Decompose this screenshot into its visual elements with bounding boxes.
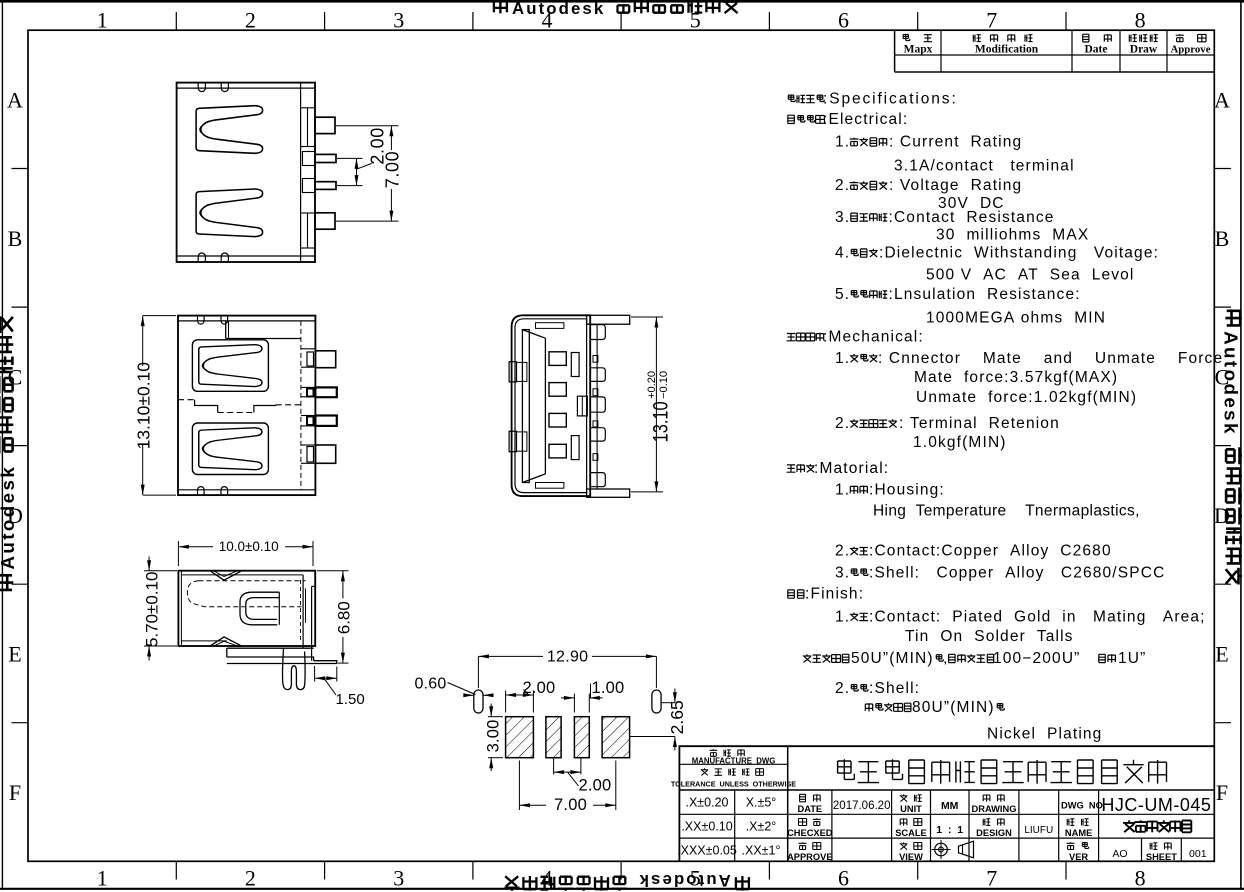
svg-text:13.10±0.10: 13.10±0.10 — [133, 362, 153, 450]
svg-text:3: 3 — [393, 8, 404, 33]
revision table header Date — [1083, 34, 1112, 42]
cell UNIT — [900, 794, 922, 801]
view2 spring upper — [199, 345, 262, 387]
view2 hidden line vertical dashed — [300, 321, 302, 490]
view2 wall ticks — [301, 348, 316, 350]
view5 dim 1.00 arrows outside — [561, 697, 574, 699]
view2 top plate — [225, 321, 227, 339]
svg-text:7.00: 7.00 — [383, 151, 403, 188]
view1 bottom notch 1 — [198, 253, 205, 262]
title block horizontal lines — [679, 763, 787, 765]
svg-text:: Cnnector Mate and U: : Cnnector Mate and Unmate Force — [878, 350, 1223, 367]
view5 dim 7.00 ext lines — [518, 761, 520, 811]
outer border right line — [1240, 1, 1242, 890]
svg-text::Electrical:: :Electrical: — [823, 111, 908, 128]
view2 bottom inner line — [178, 489, 315, 491]
svg-text:2.: 2. — [835, 177, 850, 194]
svg-text::Dielectnic Withstanding Vo: :Dielectnic Withstanding Voitage: — [879, 245, 1159, 262]
svg-text:8: 8 — [1135, 8, 1146, 33]
view4 fork pin — [282, 648, 305, 689]
view4 foot plate — [227, 648, 314, 661]
svg-text:NAME: NAME — [1065, 828, 1092, 838]
cell SHEET — [1150, 842, 1171, 850]
bottom ruler ticks — [175, 861, 177, 879]
svg-text::Shell:: :Shell: — [869, 680, 920, 697]
svg-text:6: 6 — [838, 866, 849, 891]
view2 terminal 1 — [315, 351, 335, 368]
view3 outer shell — [512, 315, 591, 496]
svg-text:A: A — [7, 87, 23, 112]
view5 dim 2.65 line arrows outside — [674, 689, 676, 703]
svg-text:500 V AC AT Sea Levol: 500 V AC AT Sea Levol — [926, 267, 1135, 284]
svg-text:APPROVE: APPROVE — [787, 852, 832, 862]
view5 dim 2.00 top line arrows — [506, 694, 534, 696]
view2 mid parting line solid steps — [195, 400, 218, 413]
svg-text:A: A — [1214, 87, 1230, 112]
view3 right column rect top — [571, 353, 579, 377]
view1 dim 7.00 line and arrows — [390, 126, 392, 150]
svg-text:DESIGN: DESIGN — [976, 828, 1012, 838]
view3 right small squares — [593, 356, 598, 363]
svg-text:MM: MM — [941, 800, 959, 812]
view5 dim 7.00 line arrows — [519, 804, 546, 806]
svg-text:1.: 1. — [835, 481, 850, 498]
view1 top inner line — [177, 87, 315, 89]
view3 center clip — [577, 396, 587, 416]
svg-text::Contact: Piated Gold in: :Contact: Piated Gold in Mating Area; — [869, 608, 1206, 625]
svg-text:Autodesk: Autodesk — [638, 871, 731, 890]
view3 right column rect bottom — [571, 436, 579, 460]
third angle projection symbol cone — [959, 841, 974, 858]
view3 dim 13.10 ext lines — [631, 316, 663, 318]
title block outer — [679, 746, 1214, 861]
title company name — [838, 759, 1167, 783]
view4 dim 6.80 line arrows — [342, 571, 344, 599]
revision table header Approve — [1176, 34, 1206, 42]
top ruler ticks — [175, 12, 177, 30]
outer border left line — [1, 1, 3, 890]
watermark right (rotated 90) — [1221, 311, 1243, 585]
svg-text:VIEW: VIEW — [899, 852, 923, 862]
svg-text:.XXX±0.05: .XXX±0.05 — [677, 844, 737, 858]
view1 terminal 4 — [315, 213, 335, 229]
view3 bottom wing tab — [587, 489, 630, 497]
svg-text:Autodesk: Autodesk — [512, 0, 605, 18]
svg-text:8: 8 — [1135, 866, 1146, 891]
cell NAME — [1067, 819, 1088, 826]
svg-text:100−200U”: 100−200U” — [993, 650, 1080, 667]
view2 spring lower — [199, 428, 262, 470]
svg-text:Hing Temperature Tnermapla: Hing Temperature Tnermaplastics, — [873, 502, 1140, 519]
spec line Specifications — [788, 95, 824, 103]
view4 solder tail — [227, 661, 337, 664]
cell CHECXED — [799, 818, 821, 825]
view3 dim 13.10 tolerance text — [646, 371, 672, 443]
view4 hidden tongue dashed outline — [199, 580, 306, 582]
spec line plating 80U — [865, 703, 911, 712]
view5 right slot — [652, 690, 661, 713]
spec line Finish — [788, 590, 804, 598]
svg-text:Mate force:3.57kgf(MAX): Mate force:3.57kgf(MAX) — [914, 369, 1118, 386]
svg-text:MANUFACTURE DWG: MANUFACTURE DWG — [692, 757, 776, 766]
view1 terminal leader lines — [336, 125, 399, 127]
svg-text:001: 001 — [1189, 848, 1207, 860]
svg-text:2.00: 2.00 — [523, 679, 556, 697]
svg-text:+0.20: +0.20 — [646, 371, 658, 399]
svg-text:Unmate force:1.02kgf(MIN): Unmate force:1.02kgf(MIN) — [916, 389, 1137, 406]
svg-text:LIUFU: LIUFU — [1024, 825, 1053, 836]
view1 terminal 2 — [315, 154, 336, 162]
title block vertical lines — [787, 746, 789, 861]
svg-text:.XX±0.10: .XX±0.10 — [681, 820, 732, 834]
svg-text:10.0±0.10: 10.0±0.10 — [219, 539, 279, 554]
right ruler ticks — [1214, 168, 1231, 170]
cell DRAWING — [983, 794, 1004, 802]
view4 spring right closure — [278, 592, 280, 625]
view1 body outline — [177, 83, 315, 262]
view4 dim 10.0 line arrows — [178, 546, 213, 548]
watermark bottom (rotated 180) — [505, 871, 749, 891]
svg-text:.X±0.20: .X±0.20 — [686, 796, 729, 810]
view4 dim 5.70 line arrows outside — [148, 557, 150, 571]
view4 top clip zigzag — [211, 571, 241, 580]
svg-text:Mapx: Mapx — [904, 44, 933, 56]
svg-text:4.: 4. — [835, 245, 850, 262]
view4 contact spring hook — [240, 592, 279, 625]
svg-text:1: 1 — [97, 8, 108, 33]
view2 top notch 1 — [198, 316, 205, 325]
svg-text:6: 6 — [838, 8, 849, 33]
svg-text:AO: AO — [1112, 848, 1127, 860]
svg-text:3.1A/contact terminal: 3.1A/contact terminal — [894, 158, 1075, 175]
spec line Electrical — [788, 115, 825, 124]
svg-text:2.65: 2.65 — [667, 700, 687, 734]
svg-text:UNIT: UNIT — [900, 804, 922, 814]
svg-text:1.0kgf(MIN): 1.0kgf(MIN) — [913, 434, 1007, 451]
view5 dim 1.00 ext lines — [573, 694, 575, 713]
svg-text:DRAWING: DRAWING — [972, 804, 1017, 814]
view3 inner top rect — [536, 323, 564, 329]
view1 bottom inner line — [177, 255, 315, 257]
cell DATE — [800, 794, 821, 802]
view3 right bumps — [590, 325, 605, 340]
svg-text:: Current Rating: : Current Rating — [889, 134, 1022, 151]
svg-text::Shell: Copper Alloy C268: :Shell: Copper Alloy C2680/SPCC — [869, 564, 1165, 581]
svg-text:80U”(MIN): 80U”(MIN) — [912, 699, 995, 716]
view4 bottom inner line — [181, 640, 226, 642]
svg-text:Autodesk: Autodesk — [0, 465, 18, 570]
view1 right wall line — [300, 83, 302, 262]
svg-text:VER: VER — [1069, 852, 1088, 862]
outer border bottom line — [0, 888, 1244, 890]
view3 tongue side — [522, 330, 529, 483]
view4 dim 6.80 ext lines — [317, 570, 349, 572]
cell SCALE — [900, 818, 922, 826]
view4 dim 1.50 ext and arrows — [314, 666, 316, 682]
view5 dim 12.90 line arrows — [478, 655, 543, 657]
svg-text:1.50: 1.50 — [336, 691, 365, 708]
svg-text:CHECXED: CHECXED — [787, 828, 833, 838]
svg-text:.XX±1°: .XX±1° — [742, 844, 781, 858]
svg-text:13.10: 13.10 — [649, 401, 673, 442]
svg-text:1.00: 1.00 — [592, 679, 625, 697]
svg-text:2.: 2. — [835, 543, 850, 560]
svg-text:B: B — [1215, 226, 1230, 251]
svg-text:7: 7 — [986, 866, 997, 891]
svg-text:2.: 2. — [835, 415, 850, 432]
svg-text:7.00: 7.00 — [554, 796, 587, 814]
view1 bottom notch 2 — [221, 253, 228, 262]
svg-text:30 milliohms MAX: 30 milliohms MAX — [936, 227, 1089, 244]
svg-text:SHEET: SHEET — [1146, 852, 1177, 862]
view2 top inner line — [178, 320, 315, 322]
view2 mid parting line dashed segments — [178, 399, 195, 401]
svg-text:2.: 2. — [835, 680, 850, 697]
svg-text:E: E — [8, 641, 21, 666]
cell APPROVE — [799, 842, 821, 849]
svg-text:6.80: 6.80 — [334, 601, 353, 634]
cell VIEW — [900, 842, 922, 849]
svg-text:50U”(MIN): 50U”(MIN) — [851, 650, 934, 667]
svg-text:Autodesk: Autodesk — [1221, 331, 1242, 436]
view4 terminal block lines — [302, 575, 304, 648]
view4 dim 10.0 ext lines — [177, 541, 179, 566]
svg-text:1 : 1: 1 : 1 — [936, 824, 963, 836]
svg-text::Finish:: :Finish: — [805, 586, 864, 603]
view1 terminal 3 — [315, 182, 336, 190]
svg-text:X.±5°: X.±5° — [746, 796, 777, 810]
view5 dim 12.90 ext lines — [477, 656, 479, 688]
view1 spring contact lower — [196, 189, 263, 237]
view1 wall ticks — [301, 107, 315, 109]
svg-text:1: 1 — [97, 866, 108, 891]
view2 dim 13.10 ext lines — [143, 315, 176, 317]
title cell MANUFACTURE DWG — [710, 749, 745, 756]
svg-text:F: F — [9, 780, 21, 805]
svg-text:E: E — [1215, 641, 1228, 666]
view3 left tab bottom — [509, 431, 516, 452]
revision table header Draw — [1129, 35, 1158, 42]
svg-text:B: B — [8, 226, 23, 251]
svg-text::Lnsulation Resistance:: :Lnsulation Resistance: — [889, 286, 1081, 303]
svg-text::Matorial:: :Matorial: — [814, 460, 889, 477]
view5 dim 2.00 bottom line arrows — [554, 771, 581, 773]
view3 contact pads — [549, 352, 566, 366]
view2 terminal 2 thick — [315, 387, 336, 397]
view4 left inner line — [180, 571, 182, 646]
svg-text:−0.10: −0.10 — [658, 371, 670, 399]
svg-text::Contact Resistance: :Contact Resistance — [889, 209, 1055, 226]
view1 wall tab rects — [307, 108, 309, 147]
svg-text::Contact:Copper Alloy C2680: :Contact:Copper Alloy C2680 — [869, 543, 1112, 560]
svg-text:1.: 1. — [835, 608, 850, 625]
view5 left slot — [474, 690, 483, 713]
svg-text:DATE: DATE — [797, 804, 822, 814]
svg-text:DWG NO.: DWG NO. — [1061, 801, 1105, 811]
view3 dim 13.10 line and arrows — [655, 317, 657, 492]
view2 bottom notch 1 — [198, 487, 205, 496]
view3 inner shell — [515, 319, 587, 493]
view2 terminal 3 thick — [315, 416, 336, 426]
view3 left tab top — [509, 362, 516, 382]
view2 top notch 2 — [221, 316, 228, 325]
cell VER — [1067, 842, 1089, 850]
svg-text:SCALE: SCALE — [895, 828, 927, 838]
watermark top — [494, 0, 738, 18]
spec line plating 50U — [803, 654, 849, 662]
view3 inner bottom rect — [536, 483, 564, 489]
svg-text:.X±2°: .X±2° — [746, 820, 777, 834]
view5 dim 3.00 ext lines — [488, 716, 503, 718]
view5 dim 2.00 top ext lines — [505, 691, 507, 713]
svg-text:1000MEGA ohms MIN: 1000MEGA ohms MIN — [926, 310, 1106, 327]
view2 body outline — [178, 316, 315, 496]
view1 terminal 1 — [315, 117, 335, 133]
svg-text:Date: Date — [1085, 44, 1108, 56]
svg-text:1.: 1. — [835, 350, 850, 367]
left ruler ticks — [12, 168, 29, 170]
svg-text:: Terminal Retenion: : Terminal Retenion — [899, 415, 1060, 432]
view3 top wing tab — [587, 315, 630, 324]
revision table header Modification — [973, 34, 1032, 42]
svg-text::Mechanical:: :Mechanical: — [823, 329, 924, 346]
svg-text:,: , — [944, 654, 947, 666]
view4 body outline — [178, 571, 315, 646]
revision table grid — [894, 30, 896, 72]
watermark left (rotated -90) — [0, 316, 18, 590]
svg-text:3: 3 — [393, 866, 404, 891]
svg-text:2.00: 2.00 — [579, 776, 612, 794]
view1 top notch 1 — [198, 83, 205, 92]
spec line Mechanical — [787, 333, 824, 341]
title cell TOLERANCE — [701, 768, 764, 775]
view4 top inner line — [181, 574, 303, 576]
svg-text:3.00: 3.00 — [485, 719, 503, 752]
svg-text:2: 2 — [245, 866, 256, 891]
view2 spring holder lower — [192, 423, 268, 475]
svg-text:Modification: Modification — [975, 44, 1039, 56]
view2 terminal tabs — [307, 352, 314, 366]
svg-text::Housing:: :Housing: — [869, 481, 945, 498]
svg-text:5.70±0.10: 5.70±0.10 — [142, 572, 161, 648]
outer border top thick line — [0, 0, 1244, 3]
third angle projection symbol circle — [935, 843, 948, 856]
svg-text:1U”: 1U” — [1118, 650, 1146, 667]
svg-text:3.: 3. — [835, 209, 850, 226]
svg-text:Nickel Plating: Nickel Plating — [987, 725, 1102, 742]
revision table header Mapx — [903, 34, 932, 42]
view2 terminal 4 — [315, 445, 335, 463]
svg-text:3.: 3. — [835, 564, 850, 581]
svg-text:2017.06.20: 2017.06.20 — [833, 800, 891, 812]
svg-text:Draw: Draw — [1130, 44, 1158, 56]
view3 right plate line — [596, 325, 598, 489]
svg-text:Tin On Solder Talls: Tin On Solder Talls — [905, 628, 1074, 645]
view2 dim 13.10 line and arrows — [142, 316, 144, 366]
view2 bottom notch 2 — [221, 487, 228, 496]
cell DESIGN — [983, 818, 1004, 826]
svg-text:12.90: 12.90 — [547, 649, 589, 666]
view5 dim 2.65 leaders — [661, 702, 675, 704]
svg-text:: Voltage Rating: : Voltage Rating — [889, 177, 1022, 194]
svg-text:1.: 1. — [835, 134, 850, 151]
spec line Matorial — [787, 464, 815, 472]
view1 top notch 2 — [221, 83, 228, 92]
svg-text:Approve: Approve — [1171, 44, 1211, 56]
view4 dim 5.70 ext lines — [144, 570, 177, 572]
svg-text::Specifications:: :Specifications: — [823, 91, 958, 108]
svg-text:5.: 5. — [835, 286, 850, 303]
view2 spring holder upper — [192, 340, 268, 392]
svg-text:TOLERANCE UNLESS OTHERWISE: TOLERANCE UNLESS OTHERWISE — [671, 780, 796, 789]
view4 bottom clip zigzag — [211, 637, 241, 646]
view1 spring contact upper — [196, 106, 263, 154]
view5 dim 2.00 bottom ext lines — [553, 759, 555, 775]
svg-text:2: 2 — [245, 8, 256, 33]
svg-text:HJC-UM-045: HJC-UM-045 — [1101, 795, 1211, 815]
view5 dim 3.00 arrows outside — [490, 704, 492, 717]
view3 tongue slab — [522, 330, 545, 339]
cell product name value — [1123, 820, 1191, 832]
svg-text:7: 7 — [986, 8, 997, 33]
svg-text:F: F — [1216, 780, 1228, 805]
svg-text:0.60: 0.60 — [415, 675, 447, 692]
view1 dim 2.00 line and arrows — [356, 158, 358, 185]
